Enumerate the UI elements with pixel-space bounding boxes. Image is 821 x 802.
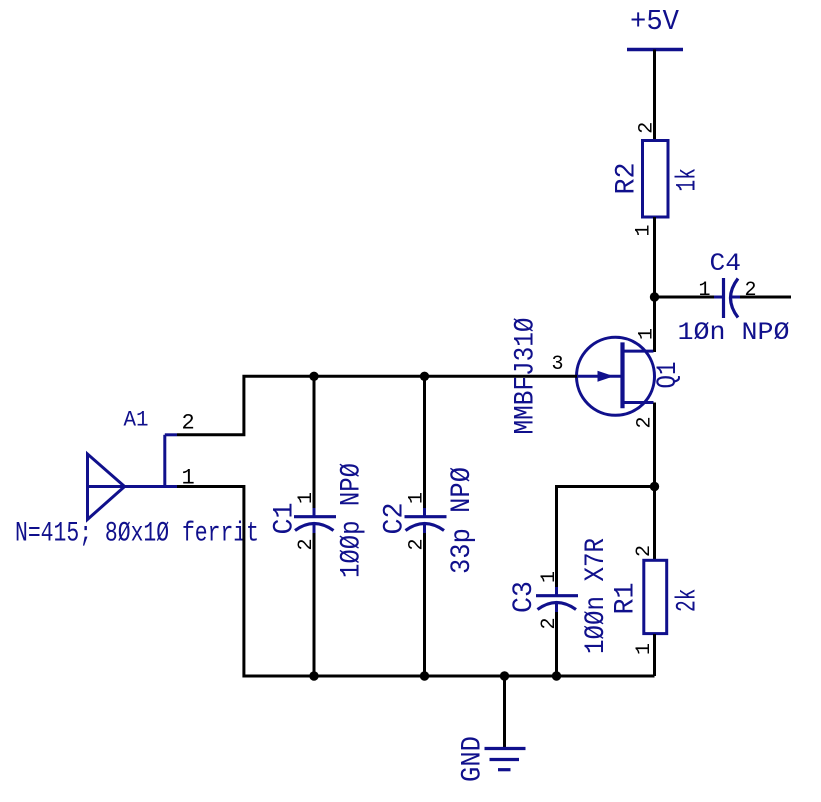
wire gate row [177, 376, 577, 435]
svg-text:2: 2 [745, 279, 757, 302]
svg-text:R2: R2 [612, 163, 643, 195]
wire +5V to R2 [653, 50, 656, 141]
transistor Q1 MMBFJ310 JFET [511, 318, 685, 435]
node junction C2 bottom [420, 671, 429, 680]
node junction source row [650, 482, 659, 491]
capacitor C2 [380, 376, 479, 676]
svg-text:C4: C4 [710, 249, 742, 278]
svg-text:C1: C1 [270, 503, 301, 535]
node junction C1 bottom [309, 671, 318, 680]
wire C4 pin2 [740, 296, 791, 299]
wire antenna pin1 to bottom rail [177, 487, 655, 677]
node junction C3 bottom [552, 671, 561, 680]
svg-text:2: 2 [636, 122, 659, 134]
svg-text:1: 1 [633, 224, 656, 236]
svg-text:1: 1 [538, 571, 561, 583]
svg-text:1: 1 [406, 492, 429, 504]
wire GND drop [503, 676, 506, 748]
svg-text:2: 2 [295, 538, 318, 550]
wire C4 pin1 [655, 296, 715, 299]
svg-text:A1: A1 [124, 408, 149, 433]
capacitor C4 [678, 249, 790, 347]
svg-text:1Øn NPØ: 1Øn NPØ [678, 318, 790, 347]
capacitor C1 [270, 376, 368, 676]
svg-text:C2: C2 [380, 503, 411, 535]
svg-text:R1: R1 [611, 583, 642, 615]
svg-text:2: 2 [633, 545, 656, 557]
wire source row to C3 [557, 487, 655, 588]
wire R1 bottom to rail [653, 634, 656, 676]
svg-text:+5V: +5V [630, 5, 680, 38]
node junction GND tap [500, 671, 509, 680]
antenna A1 [15, 408, 259, 550]
svg-text:1: 1 [633, 643, 656, 655]
svg-text:1: 1 [295, 492, 318, 504]
svg-text:2k: 2k [673, 589, 704, 613]
wire Q1 drain [653, 297, 656, 351]
svg-text:1ØØn X7R: 1ØØn X7R [581, 538, 612, 654]
wire Q1 source down [653, 403, 656, 488]
svg-text:2: 2 [182, 411, 195, 436]
svg-text:3: 3 [552, 353, 564, 376]
svg-text:N=415; 8Øx1Ø ferrit: N=415; 8Øx1Ø ferrit [15, 519, 259, 550]
ground GND symbol [458, 736, 526, 782]
resistor R1 [611, 545, 704, 655]
svg-text:C3: C3 [509, 581, 540, 613]
node junction at C4 tap [650, 292, 659, 301]
svg-text:GND: GND [458, 736, 489, 782]
svg-text:2: 2 [406, 538, 429, 550]
svg-text:2: 2 [538, 617, 561, 629]
node junction C2 top [420, 372, 429, 381]
svg-text:Q1: Q1 [653, 362, 684, 389]
node junction C1 top [309, 372, 318, 381]
wire source row to R1 [653, 487, 656, 561]
resistor R2 [612, 122, 704, 237]
+5V supply symbol [627, 5, 683, 50]
svg-text:1k: 1k [673, 168, 704, 192]
svg-text:1: 1 [699, 279, 711, 302]
svg-text:1ØØp NPØ: 1ØØp NPØ [337, 463, 368, 578]
wire R2 to Q1 drain [653, 217, 656, 352]
svg-text:33p NPØ: 33p NPØ [447, 467, 478, 574]
capacitor C3 [509, 538, 612, 676]
